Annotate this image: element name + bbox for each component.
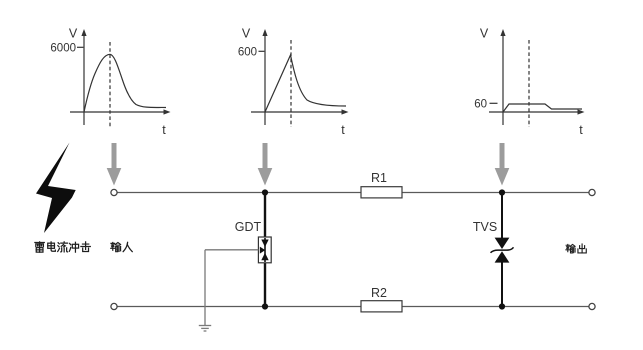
svg-text:6000: 6000 [50, 43, 76, 55]
svg-text:t: t [579, 123, 583, 137]
svg-text:GDT: GDT [235, 220, 262, 234]
svg-text:600: 600 [238, 47, 257, 59]
svg-text:60: 60 [474, 98, 487, 110]
svg-text:V: V [480, 27, 489, 41]
svg-text:TVS: TVS [473, 220, 497, 234]
svg-text:t: t [341, 123, 345, 137]
svg-text:R2: R2 [371, 286, 387, 300]
svg-text:V: V [69, 27, 78, 41]
svg-text:V: V [242, 27, 251, 41]
svg-text:t: t [162, 123, 166, 137]
svg-text:R1: R1 [371, 171, 387, 185]
